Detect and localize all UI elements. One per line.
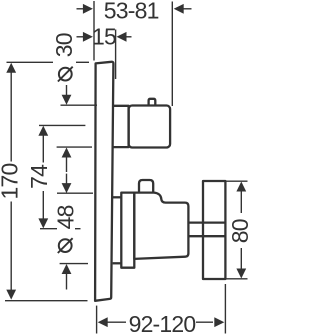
top valve notch xyxy=(149,99,156,106)
handle stem lower line xyxy=(188,235,225,237)
cartridge collar xyxy=(121,193,134,268)
handle (side view, diam 80) xyxy=(203,181,225,279)
thermostat cartridge body xyxy=(134,193,188,259)
label diam 48 (rotated) xyxy=(52,205,78,253)
label diam 30 (rotated) xyxy=(51,33,77,81)
svg-text:53-81: 53-81 xyxy=(104,0,159,23)
svg-text:30: 30 xyxy=(51,33,77,57)
svg-text:170: 170 xyxy=(0,164,22,200)
extension line plate bottom-left (for 92-120) xyxy=(96,306,98,334)
svg-text:92-120: 92-120 xyxy=(129,311,196,334)
escutcheon plate (side view) xyxy=(95,62,113,301)
top valve body (shut-off, diam 30) xyxy=(129,106,171,148)
svg-text:15: 15 xyxy=(92,23,116,49)
diam 30 down arrow xyxy=(62,85,72,105)
dimension 15 left arrow xyxy=(77,32,93,42)
extension line front of top valve (right of 53-81) xyxy=(171,2,173,107)
temperature stop knob xyxy=(139,180,153,193)
dimension 53-81 left arrow xyxy=(77,4,93,14)
extension line plate top (for 170) xyxy=(7,61,90,63)
extension line cartridge bottom (for diam 48) xyxy=(60,263,88,265)
extension line wall plane (left of 53-81 / 15) xyxy=(93,1,95,61)
extension line cartridge top (for diam 48) xyxy=(57,192,93,194)
svg-text:80: 80 xyxy=(227,219,250,243)
diam 48 down arrow (outside, above cartridge top line) xyxy=(62,174,72,194)
svg-text:48: 48 xyxy=(52,205,78,229)
extension line top cylinder bottom (for diam 30) xyxy=(57,146,92,148)
svg-text:74: 74 xyxy=(26,164,52,189)
dimension 92-120 left arrow xyxy=(98,317,126,327)
diam 48 up arrow (outside, below cartridge bottom line) xyxy=(62,264,72,290)
dimension line 80 xyxy=(236,182,246,279)
dimension 53-81 right arrow xyxy=(174,4,192,14)
extension line handle bottom (for 80) xyxy=(227,278,248,280)
dimension 92-120 right arrow xyxy=(196,317,224,327)
dimension line 170 xyxy=(6,63,16,300)
diam 30 up arrow (outside, below cylinder bottom line) xyxy=(62,148,72,173)
extension line front of plate (right of 15) xyxy=(115,30,117,80)
extension line handle front (for 92-120) xyxy=(224,284,226,334)
handle stem upper line xyxy=(188,221,225,223)
connector plate to collar (top) xyxy=(112,196,121,198)
extension line top cylinder center (for 74) xyxy=(39,124,85,126)
extension line top cylinder top (for diam 30) xyxy=(61,104,98,106)
extension line plate bottom (for 170) xyxy=(5,300,88,302)
extension line handle top (for 80) xyxy=(227,180,248,182)
dimension line 74 xyxy=(38,126,48,229)
top valve bracket xyxy=(112,106,129,147)
extension line stem center (for 74) xyxy=(40,228,81,230)
dimension 15 right arrow xyxy=(117,32,132,42)
connector plate to collar (bottom) xyxy=(113,262,122,264)
